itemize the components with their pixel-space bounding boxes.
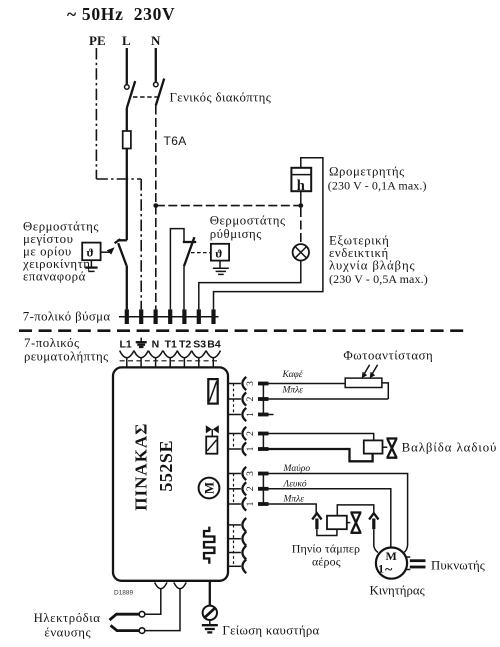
wire hour meter top loop <box>214 158 323 310</box>
svg-text:L: L <box>122 33 131 48</box>
motor output symbol inside box <box>199 478 220 499</box>
svg-text:Μαύρο: Μαύρο <box>283 464 311 474</box>
svg-text:~: ~ <box>385 563 393 578</box>
svg-text:Ηλεκτρόδια: Ηλεκτρόδια <box>34 611 101 625</box>
svg-text:2: 2 <box>246 486 256 491</box>
svg-text:Θερμοστάτης: Θερμοστάτης <box>210 214 286 228</box>
limit thermostat B1 link arrow <box>101 247 115 254</box>
svg-text:Γενικός διακόπτης: Γενικός διακόπτης <box>170 91 272 105</box>
capacitor C1 <box>406 557 425 570</box>
wire black to motor right <box>269 474 408 553</box>
svg-text:(230 V - 0,5A max.): (230 V - 0,5A max.) <box>329 272 428 286</box>
connector D terminal 3 <box>228 532 246 546</box>
main switch Q1 contact circle N <box>154 82 159 87</box>
control thermostat B2 earth symbol <box>213 261 229 275</box>
wire blue to damper <box>269 504 317 513</box>
svg-text:Κινητήρας: Κινητήρας <box>370 584 425 598</box>
svg-text:B4: B4 <box>207 339 221 351</box>
connector D terminal 4 <box>228 518 246 532</box>
ignition electrode wire right <box>145 589 180 631</box>
photoresistor right wire <box>382 383 388 399</box>
svg-text:PE: PE <box>89 33 106 48</box>
svg-text:Ωρομετρητής: Ωρομετρητής <box>329 165 405 179</box>
svg-text:1: 1 <box>378 562 384 576</box>
svg-text:1: 1 <box>246 412 256 417</box>
svg-text:Πυκνωτής: Πυκνωτής <box>431 559 485 573</box>
ignition electrode terminal circles <box>139 611 145 633</box>
svg-text:αέρος: αέρος <box>312 555 341 569</box>
connector C terminal 3 <box>228 467 269 480</box>
control thermostat B2 blade <box>184 237 194 266</box>
oil valve Y1 coil <box>364 440 383 453</box>
svg-text:Μπλε: Μπλε <box>282 386 304 396</box>
burner ground wire <box>209 581 211 606</box>
valve output symbol inside box <box>206 425 219 453</box>
main switch Q1 blade L <box>127 81 135 108</box>
control thermostat B2 fixed contact <box>183 241 196 243</box>
control thermostat B2 wire from T1 <box>170 229 184 310</box>
wire L top <box>126 48 128 84</box>
svg-text:T2: T2 <box>179 339 191 351</box>
wire brown to photoresistor <box>269 383 346 385</box>
wire L below fuse <box>126 149 128 241</box>
svg-text:ρύθμισης: ρύθμισης <box>210 227 262 241</box>
connector B strip <box>262 434 264 450</box>
oil valve Y1 valve symbol <box>383 439 398 458</box>
air damper coil <box>327 516 347 530</box>
air damper plunger left <box>312 513 337 535</box>
connector group A dashes <box>233 384 235 415</box>
ignition electrode cups <box>155 582 187 588</box>
svg-text:7-πολικός: 7-πολικός <box>24 336 80 350</box>
svg-text:Μπλε: Μπλε <box>283 495 305 505</box>
air damper plunger right <box>369 513 378 552</box>
svg-text:ΠΙΝΑΚΑΣ: ΠΙΝΑΚΑΣ <box>132 423 151 511</box>
svg-text:Βαλβίδα λαδιού: Βαλβίδα λαδιού <box>402 441 498 455</box>
connector A terminal 2 <box>228 392 269 405</box>
title 50Hz 230V <box>67 4 175 24</box>
svg-text:3: 3 <box>246 471 256 476</box>
svg-text:T1: T1 <box>165 339 177 351</box>
wire PE down to plug earth pin <box>140 179 142 309</box>
svg-text:M: M <box>202 482 217 494</box>
svg-text:S3: S3 <box>193 339 206 351</box>
ignition electrode upper <box>110 614 140 620</box>
svg-text:N: N <box>151 33 161 48</box>
svg-text:2: 2 <box>246 431 256 436</box>
terminal earth symbol <box>136 338 147 347</box>
connector D terminal 2 <box>228 546 246 560</box>
fuse T6A body <box>123 131 131 149</box>
wire hour meter bottom stub <box>300 191 302 203</box>
photoresistor light arrows <box>362 365 378 379</box>
svg-text:έναυσης: έναυσης <box>44 626 91 640</box>
air damper coil top wire <box>337 505 374 516</box>
svg-text:3: 3 <box>246 381 256 386</box>
svg-text:T6A: T6A <box>164 134 187 148</box>
ignition electrode lower <box>111 625 140 630</box>
burner ground screw <box>203 606 217 620</box>
svg-text:L1: L1 <box>120 339 132 351</box>
connector group D dashes <box>233 525 235 566</box>
svg-text:Φωτοαντίσταση: Φωτοαντίσταση <box>343 349 433 363</box>
svg-text:λυχνία βλάβης: λυχνία βλάβης <box>329 259 416 273</box>
control box 552SE outline <box>113 367 228 580</box>
node junction N branch <box>153 203 158 208</box>
separator dashed line <box>19 329 464 332</box>
svg-text:N: N <box>152 339 160 351</box>
main switch Q1 blade N <box>156 79 164 106</box>
socket scalloped contacts <box>120 351 221 368</box>
connector A terminal 1 <box>228 408 269 421</box>
air damper valve symbol <box>347 513 362 533</box>
wire dashed junction to lamp <box>300 208 302 244</box>
photoresistor body <box>345 378 382 387</box>
svg-text:Γείωση καυστήρα: Γείωση καυστήρα <box>222 624 319 638</box>
control thermostat B2 link dashes <box>191 252 210 254</box>
connector C terminal 2 <box>228 482 269 495</box>
connector group B dashes <box>233 434 235 450</box>
svg-text:D1889: D1889 <box>114 590 134 597</box>
node junction lamp/hourmeter <box>298 203 303 208</box>
wire to oil valve bottom <box>269 449 373 461</box>
wire N top <box>155 48 157 82</box>
svg-text:2: 2 <box>246 396 256 401</box>
connector C strip <box>262 474 264 505</box>
connector B terminal 2 <box>228 427 269 440</box>
ignition transformer symbol inside box <box>204 527 214 564</box>
stub terminal A1 <box>269 414 274 416</box>
svg-text:~ 50Hz 230V: ~ 50Hz 230V <box>67 4 175 24</box>
limit thermostat B1 contact <box>115 239 127 265</box>
connector A terminal 3 <box>228 377 269 390</box>
limit thermostat B1 manual reset symbol <box>85 260 97 271</box>
connector C terminal 1 <box>228 497 269 510</box>
hour meter U2 box <box>291 168 311 194</box>
connector D terminal 1 <box>228 559 246 573</box>
svg-text:1: 1 <box>246 501 256 506</box>
wire T2 blade to plug <box>183 266 185 309</box>
photo input symbol inside box <box>208 379 217 404</box>
svg-text:1: 1 <box>246 446 256 451</box>
svg-text:552SE: 552SE <box>156 440 176 492</box>
svg-text:M: M <box>386 549 397 563</box>
wire PE vertical <box>95 48 97 179</box>
wire N dashed down to plug <box>155 106 157 310</box>
wire blue return <box>269 398 389 400</box>
wire L between switch and fuse <box>126 108 128 131</box>
main switch Q1 contact circle L <box>125 85 130 90</box>
control thermostat B2 sensor box <box>211 244 229 261</box>
burner ground earth symbol <box>202 620 218 632</box>
connector group C dashes <box>233 474 235 505</box>
limit thermostat B1 sensor box <box>82 243 100 261</box>
connector A strip <box>262 384 264 415</box>
wire dashed N to lamp junction <box>156 205 301 207</box>
svg-text:Λευκό: Λευκό <box>283 479 307 489</box>
ignition electrode wire left <box>145 589 161 615</box>
wire to oil valve top <box>269 434 374 441</box>
svg-text:Πηνίο τάμπερ: Πηνίο τάμπερ <box>292 542 360 556</box>
svg-text:7-πολικό βύσμα: 7-πολικό βύσμα <box>23 310 111 324</box>
wire L1 thermostat to plug <box>126 265 128 309</box>
wire white to motor top <box>269 489 391 548</box>
svg-text:(230 V - 0,1A max.): (230 V - 0,1A max.) <box>328 179 427 193</box>
svg-text:ϑ: ϑ <box>215 247 222 261</box>
motor M1 <box>376 548 407 579</box>
wire PE horizontal to earth pin <box>96 178 141 180</box>
indicator lamp H1 <box>293 244 309 260</box>
main switch Q1 mechanical link <box>133 96 160 98</box>
svg-text:επαναφορά: επαναφορά <box>23 270 86 284</box>
label limit thermostat <box>22 220 99 284</box>
connector B terminal 1 <box>228 442 269 455</box>
wire lamp to S3 pin <box>199 261 301 310</box>
7-pole plug pins <box>119 309 219 324</box>
svg-text:Καφέ: Καφέ <box>282 370 303 380</box>
svg-text:ρευματολήπτης: ρευματολήπτης <box>24 350 109 364</box>
